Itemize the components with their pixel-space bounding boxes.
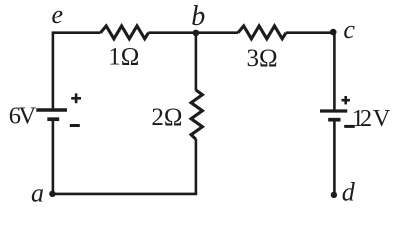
svg-text:1Ω: 1Ω (108, 44, 139, 71)
svg-text:2Ω: 2Ω (151, 104, 182, 131)
svg-text:e: e (52, 0, 64, 29)
svg-text:6V: 6V (9, 103, 37, 130)
svg-text:b: b (191, 1, 205, 32)
svg-text:3Ω: 3Ω (247, 45, 278, 72)
svg-text:c: c (343, 15, 355, 44)
svg-text:d: d (342, 177, 356, 206)
svg-text:a: a (31, 179, 44, 208)
svg-text:12V: 12V (352, 105, 391, 132)
